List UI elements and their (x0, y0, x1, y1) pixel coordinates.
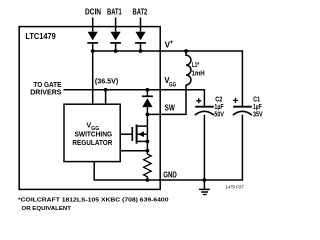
capacitor C1 (233, 98, 252, 115)
diode BAT2 (down) (135, 32, 146, 51)
svg-text:REGULATOR: REGULATOR (72, 138, 113, 147)
svg-text:(36.5V): (36.5V) (95, 76, 119, 85)
svg-text:DCIN: DCIN (85, 8, 101, 17)
wire GND line (94, 115, 242, 180)
svg-text:+: + (170, 40, 174, 46)
svg-text:GND: GND (163, 170, 177, 179)
inductor L1 (186, 51, 191, 85)
diode BAT1 (down) (110, 32, 121, 51)
svg-text:LTC1479: LTC1479 (25, 32, 56, 41)
IC outline box LTC1479 (19, 27, 160, 190)
resistor R (144, 151, 152, 180)
svg-text:BAT2: BAT2 (133, 8, 148, 17)
svg-text:C1: C1 (253, 96, 260, 103)
wire regulator to source node (120, 150, 147, 152)
svg-text:35V: 35V (253, 112, 263, 119)
svg-text:1µF: 1µF (214, 104, 224, 111)
node dot source (146, 140, 150, 144)
svg-text:50V: 50V (214, 112, 224, 119)
wire BAT1 lead (115, 18, 117, 32)
regulator box (64, 104, 120, 161)
svg-text:L1*: L1* (192, 62, 199, 69)
svg-text:OR EQUIVALENT: OR EQUIVALENT (22, 206, 72, 212)
wire VGG line (to gate drivers / VGG pin / C2) (64, 90, 205, 106)
svg-text:1mH: 1mH (192, 71, 205, 78)
node dot L1/bus (184, 49, 188, 53)
transistor M1 (N-MOSFET) (120, 114, 147, 150)
diode D (up) cathode to VGG (142, 90, 153, 115)
svg-text:GG: GG (169, 83, 176, 89)
wire DCIN lead (92, 18, 94, 32)
svg-text:BAT1: BAT1 (107, 8, 122, 17)
wire C2 bottom (203, 115, 205, 180)
node dot diode/VGG (146, 88, 150, 92)
wire V+ bus (93, 51, 243, 106)
node dot BAT1/bus (114, 49, 118, 53)
svg-text:*COILCRAFT 1812LS-105 XKBC (70: *COILCRAFT 1812LS-105 XKBC (708) 639-640… (18, 197, 169, 203)
ground symbol (199, 180, 210, 195)
node dot source/regulator (146, 149, 150, 153)
node dot SW (146, 113, 150, 117)
wire BAT2 lead (140, 18, 142, 32)
node dot DCIN/bus (91, 49, 95, 53)
diode DCIN (down) (87, 32, 98, 51)
node dot VGG/regulator sense (104, 88, 108, 92)
node dot BAT2/bus (139, 49, 143, 53)
wire SW line to L1 (147, 85, 186, 115)
svg-text:1479 F07: 1479 F07 (225, 184, 244, 189)
svg-text:DRIVERS: DRIVERS (30, 87, 61, 96)
wire V+ feed to regulator (92, 51, 94, 104)
node dot resistor/GND (146, 178, 150, 182)
svg-text:SW: SW (165, 103, 176, 112)
wire VGG sense to regulator (105, 90, 107, 104)
svg-text:1µF: 1µF (253, 104, 262, 111)
node dot C2/GND (203, 178, 207, 182)
svg-text:C2: C2 (215, 96, 222, 103)
capacitor C2 (195, 98, 214, 115)
